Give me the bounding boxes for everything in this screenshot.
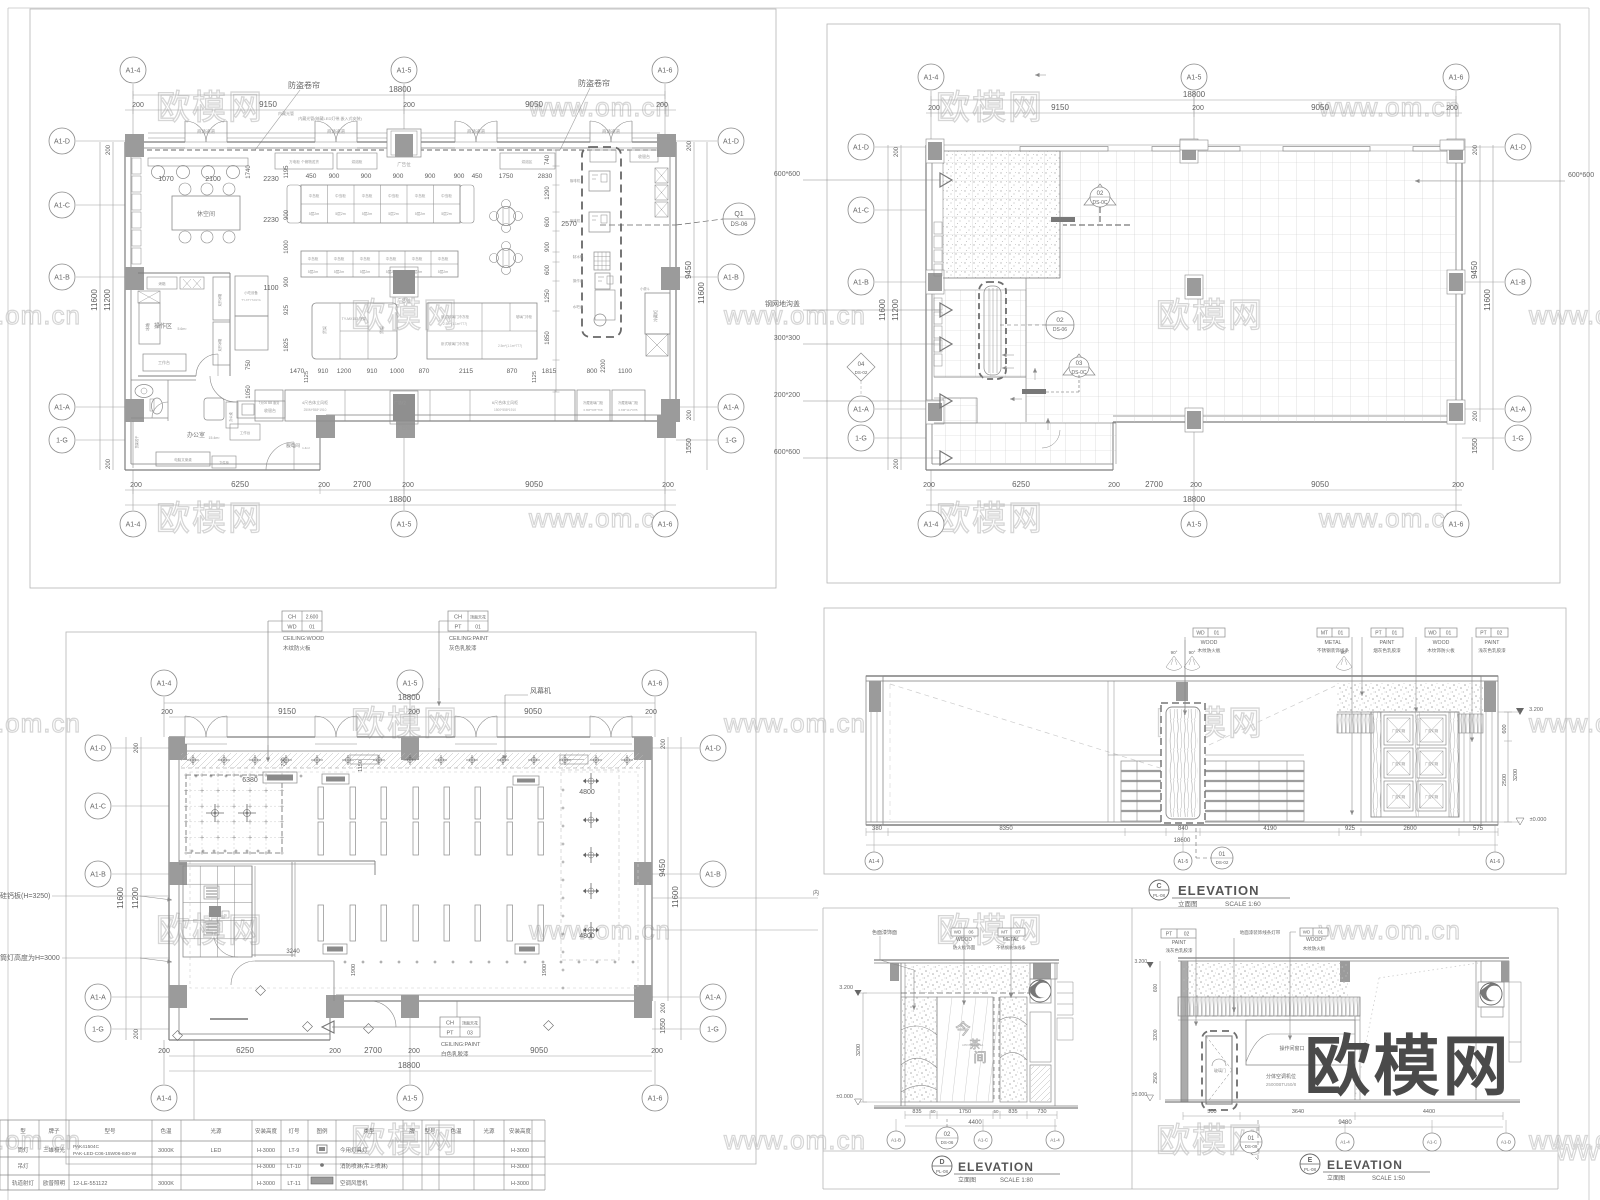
svg-text:6250: 6250 [236,1046,254,1055]
svg-text:200: 200 [106,458,112,469]
svg-text:A1-4: A1-4 [924,521,939,528]
svg-text:浅灰色乳胶漆: 浅灰色乳胶漆 [1166,947,1193,954]
svg-text:欧模网: 欧模网 [156,500,264,538]
svg-text:200: 200 [161,709,173,716]
svg-text:H-3000: H-3000 [511,1164,529,1170]
svg-text:1900: 1900 [542,964,548,976]
svg-text:中岛柜: 中岛柜 [441,193,452,198]
svg-text:A1-D: A1-D [1510,144,1526,151]
svg-text:200: 200 [329,1048,341,1055]
svg-text:3200: 3200 [1513,769,1519,781]
svg-text:A1-D: A1-D [90,745,106,752]
svg-text:4800: 4800 [579,789,595,796]
svg-text:A1-A: A1-A [1510,406,1526,413]
svg-text:木纹防火板: 木纹防火板 [1198,647,1221,654]
svg-text:1-G: 1-G [707,1026,719,1033]
svg-text:A1-C: A1-C [853,207,869,214]
svg-text:PT: PT [454,625,462,631]
svg-text:900: 900 [361,173,372,180]
svg-text:03: 03 [1076,361,1083,367]
svg-text:TY-XTY7A9YA: TY-XTY7A9YA [241,298,261,302]
svg-text:900: 900 [545,241,551,252]
svg-text:835: 835 [912,1109,921,1115]
svg-text:ELEVATION: ELEVATION [958,1160,1034,1174]
svg-text:04: 04 [858,362,865,368]
svg-text:18800: 18800 [398,1061,421,1070]
svg-text:A1-D: A1-D [1501,1140,1512,1145]
svg-text:A1-D: A1-D [705,745,721,752]
svg-text:玻璃门: 玻璃门 [1214,1067,1226,1073]
svg-text:200: 200 [1473,410,1479,421]
svg-text:A1-5: A1-5 [1187,521,1202,528]
svg-text:1750: 1750 [959,1109,971,1115]
svg-text:操作间窗口: 操作间窗口 [1279,1045,1304,1052]
svg-text:870: 870 [507,368,518,375]
svg-text:CEILING:PAINT: CEILING:PAINT [441,1042,481,1048]
svg-text:A1-6: A1-6 [658,521,673,528]
svg-text:广告灯箱: 广告灯箱 [1392,761,1406,766]
svg-text:1825: 1825 [284,338,290,352]
svg-text:02: 02 [1184,932,1190,938]
svg-text:筒灯高度为H=3000: 筒灯高度为H=3000 [0,953,60,962]
svg-text:1815: 1815 [542,368,557,375]
svg-text:S: S [224,913,227,918]
svg-text:2.5m*(1.1m*777): 2.5m*(1.1m*777) [443,322,467,326]
svg-text:LT-11: LT-11 [287,1181,300,1187]
svg-text:01: 01 [1219,852,1226,858]
svg-text:www.om.cn: www.om.cn [1318,92,1461,122]
svg-text:9050: 9050 [530,1046,548,1055]
svg-text:1-G: 1-G [725,437,737,444]
svg-text:925: 925 [284,304,290,315]
svg-text:2100: 2100 [205,176,221,183]
svg-text:广告灯箱: 广告灯箱 [1425,794,1439,799]
svg-text:安装高度: 安装高度 [255,1127,278,1135]
svg-text:5层2m: 5层2m [308,269,319,274]
svg-text:APROMISED TEA: APROMISED TEA [962,1043,984,1047]
svg-text:LT-9: LT-9 [289,1148,300,1154]
svg-text:METAL: METAL [1325,640,1342,646]
svg-text:9050: 9050 [1311,480,1329,489]
svg-text:3000K: 3000K [158,1181,174,1187]
svg-text:900: 900 [425,173,436,180]
svg-text:2700: 2700 [353,480,371,489]
svg-text:广告灯箱: 广告灯箱 [1425,761,1439,766]
svg-text:H-3000: H-3000 [257,1164,275,1170]
svg-text:光源: 光源 [210,1127,222,1135]
svg-text:2.5m*(1.1m*777): 2.5m*(1.1m*777) [498,344,522,348]
svg-text:www.om.cn: www.om.cn [528,503,671,533]
svg-text:WOOD: WOOD [1306,937,1322,943]
svg-text:ELEVATION: ELEVATION [1327,1158,1403,1172]
svg-text:木纹饰防火板: 木纹饰防火板 [1427,647,1455,654]
svg-text:www.om.cn: www.om.cn [528,92,671,122]
svg-text:3.200: 3.200 [1134,959,1147,965]
svg-text:SCALE 1:60: SCALE 1:60 [1225,901,1261,908]
svg-text:200: 200 [403,102,415,109]
svg-text:5层2m: 5层2m [334,269,345,274]
svg-text:中岛柜: 中岛柜 [438,256,449,261]
svg-text:WD: WD [1303,930,1311,935]
svg-text:1-G: 1-G [855,435,867,442]
svg-text:18800: 18800 [1183,90,1206,99]
svg-text:1500*558*1910: 1500*558*1910 [494,408,516,412]
svg-text:6250: 6250 [231,480,249,489]
svg-text:立面图: 立面图 [1178,899,1198,908]
svg-text:LED: LED [211,1148,222,1154]
svg-text:1850: 1850 [545,331,551,345]
svg-text:1900: 1900 [351,964,357,976]
svg-text:DS-02: DS-02 [855,370,868,375]
svg-text:06: 06 [968,930,974,935]
svg-text:E: E [1308,1157,1313,1164]
svg-text:9150: 9150 [259,100,277,109]
svg-text:3000K: 3000K [158,1148,174,1154]
svg-text:50: 50 [930,1109,936,1114]
svg-text:200: 200 [661,738,667,749]
svg-text:200: 200 [134,1028,140,1039]
svg-text:A1-A: A1-A [723,404,739,411]
svg-text:02: 02 [1056,317,1064,324]
svg-text:2700: 2700 [364,1046,382,1055]
svg-text:200: 200 [1452,482,1464,489]
svg-text:02: 02 [1097,191,1104,197]
svg-text:01: 01 [1338,631,1344,637]
svg-text:浅灰色乳胶漆: 浅灰色乳胶漆 [1478,647,1506,654]
svg-text:牌: 牌 [409,1127,415,1135]
svg-text:LT-10: LT-10 [287,1164,301,1170]
svg-text:双开冰箱: 双开冰箱 [217,293,222,307]
svg-text:CH: CH [446,1021,454,1027]
svg-text:烤箱: 烤箱 [159,281,166,286]
svg-text:1050: 1050 [246,385,252,399]
svg-text:消防喷淋(吊上喷淋): 消防喷淋(吊上喷淋) [340,1162,388,1170]
svg-text:3640: 3640 [1292,1109,1304,1115]
svg-text:工作台: 工作台 [158,359,170,365]
svg-text:4400: 4400 [968,1120,982,1126]
svg-text:1550: 1550 [1472,438,1479,454]
svg-text:A1-6: A1-6 [648,1095,663,1102]
svg-text:灯号: 灯号 [288,1127,300,1135]
svg-text:www.om.cn: www.om.cn [1318,503,1461,533]
svg-text:±0.000: ±0.000 [1132,1092,1147,1098]
svg-text:9450: 9450 [684,261,693,279]
svg-text:01: 01 [1446,631,1452,637]
svg-text:CH: CH [454,615,462,621]
svg-text:1000: 1000 [284,240,290,254]
svg-text:200: 200 [651,1048,663,1055]
svg-text:50: 50 [993,1109,999,1114]
svg-text:600: 600 [545,264,551,275]
svg-text:WD: WD [1428,631,1437,637]
svg-text:万电柜 个储物送货: 万电柜 个储物送货 [289,159,319,164]
svg-text:灰色乳胶漆: 灰色乳胶漆 [449,644,477,652]
svg-text:TY-MX153 货架: TY-MX153 货架 [342,316,367,321]
svg-text:PAINT: PAINT [1172,940,1186,946]
svg-text:1.4m²: 1.4m² [302,446,310,450]
svg-text:广告位: 广告位 [397,297,411,304]
svg-text:商场通道: 商场通道 [197,128,215,135]
svg-text:间: 间 [973,1050,986,1065]
svg-text:11600: 11600 [116,887,125,909]
svg-text:光源: 光源 [483,1127,495,1135]
svg-text:PL-08: PL-08 [936,1169,949,1174]
svg-text:商场通道: 商场通道 [467,128,485,135]
svg-text:02: 02 [1497,631,1503,637]
svg-text:防盗卷帘: 防盗卷帘 [578,78,610,88]
svg-text:安装高度: 安装高度 [509,1127,532,1135]
svg-text:4190: 4190 [1263,826,1277,832]
svg-text:1195: 1195 [284,165,290,179]
svg-text:A1-4: A1-4 [157,1095,172,1102]
svg-text:PL-08: PL-08 [1304,1167,1317,1172]
svg-text:200: 200 [894,458,900,469]
svg-text:250M*558*1910: 250M*558*1910 [304,408,327,412]
svg-text:工作台: 工作台 [240,430,251,435]
svg-text:11600: 11600 [697,282,706,304]
svg-text:www.om.cn: www.om.cn [723,1125,866,1155]
svg-text:中岛柜: 中岛柜 [362,193,373,198]
svg-text:型: 型 [20,1127,26,1135]
svg-text:A1-6: A1-6 [1490,859,1501,865]
svg-text:200: 200 [928,105,940,112]
svg-text:A1-C: A1-C [54,202,70,209]
svg-text:1-G: 1-G [56,437,68,444]
svg-text:www.om.cn: www.om.cn [723,708,866,738]
svg-text:SCALE 1:50: SCALE 1:50 [1372,1176,1406,1182]
svg-text:90°: 90° [1189,650,1196,655]
svg-text:DS-06: DS-06 [730,222,748,228]
svg-text:制冰机: 制冰机 [573,254,584,259]
svg-text:中岛柜: 中岛柜 [360,256,371,261]
svg-text:内: 内 [813,889,819,897]
svg-text:1125: 1125 [304,371,310,383]
svg-text:2500: 2500 [1502,774,1508,786]
svg-text:A1-B: A1-B [1510,279,1526,286]
svg-text:操作区: 操作区 [154,322,172,330]
svg-text:A1-D: A1-D [853,144,869,151]
svg-text:18600: 18600 [1174,838,1191,844]
svg-text:200: 200 [656,102,668,109]
svg-text:01: 01 [1318,930,1324,935]
svg-text:5层2m: 5层2m [309,211,320,216]
svg-text:DS-06: DS-06 [1053,327,1067,333]
svg-text:500: 500 [1207,1109,1216,1115]
svg-text:A1-C: A1-C [90,803,106,810]
svg-text:中岛柜: 中岛柜 [334,256,345,261]
svg-text:900: 900 [329,173,340,180]
svg-text:9450: 9450 [1470,261,1479,279]
svg-text:2115: 2115 [459,368,473,375]
svg-text:PAINT: PAINT [1380,640,1396,646]
svg-text:200: 200 [408,709,420,716]
svg-text:9050: 9050 [525,480,543,489]
svg-text:A1-6: A1-6 [648,680,663,687]
svg-text:835: 835 [1008,1109,1017,1115]
svg-text:11200: 11200 [103,289,112,311]
svg-text:4400: 4400 [1423,1109,1435,1115]
svg-text:A1-B: A1-B [90,871,106,878]
svg-text:1000: 1000 [390,368,405,375]
svg-text:A1-A: A1-A [705,994,721,1001]
svg-text:0.8M*111*07B: 0.8M*111*07B [619,408,638,412]
svg-text:广告灯箱: 广告灯箱 [1392,728,1406,733]
svg-text:广告位: 广告位 [397,424,411,431]
svg-text:A1-B: A1-B [891,1138,901,1143]
svg-text:1750: 1750 [499,173,514,180]
svg-text:740: 740 [545,154,551,165]
svg-text:www.om.cn: www.om.cn [1318,915,1461,945]
svg-text:600*600: 600*600 [1568,172,1594,179]
svg-text:1550: 1550 [660,1018,667,1034]
svg-text:钢网地沟盖: 钢网地沟盖 [765,299,800,308]
svg-text:白色乳胶漆: 白色乳胶漆 [441,1050,469,1058]
svg-text:2570: 2570 [561,221,577,228]
svg-text:DS-0C: DS-0C [1092,200,1107,206]
svg-text:WOOD: WOOD [1433,640,1450,646]
svg-text:卧式玻璃门冷冻柜: 卧式玻璃门冷冻柜 [441,314,469,319]
svg-text:8350: 8350 [999,826,1013,832]
svg-text:200: 200 [134,742,140,753]
svg-text:欧普照明: 欧普照明 [43,1179,66,1187]
svg-text:450: 450 [306,173,317,180]
svg-text:±0.000: ±0.000 [836,1094,853,1100]
svg-text:200: 200 [132,102,144,109]
svg-text:700: 700 [281,757,287,766]
svg-text:2.600: 2.600 [306,615,319,621]
svg-text:A1-6: A1-6 [658,67,673,74]
svg-text:A1-D: A1-D [723,138,739,145]
svg-text:色面漆饰面: 色面漆饰面 [872,929,897,936]
svg-text:卧式玻璃门冷冻柜: 卧式玻璃门冷冻柜 [441,341,469,346]
svg-text:PT: PT [1166,932,1172,938]
svg-text:900: 900 [284,209,290,220]
svg-text:WD: WD [287,625,296,631]
svg-text:380: 380 [872,826,883,832]
svg-text:CEILING:PAINT: CEILING:PAINT [449,636,489,642]
svg-text:A1-6: A1-6 [1449,521,1464,528]
svg-text:DS-06: DS-06 [941,1140,954,1145]
svg-text:11600: 11600 [1483,289,1492,311]
svg-text:今用灯具灯: 今用灯具灯 [340,1146,368,1154]
svg-text:01: 01 [1392,631,1398,637]
svg-text:9050: 9050 [525,100,543,109]
svg-text:A1-4: A1-4 [1340,1140,1350,1145]
svg-text:750: 750 [246,359,252,370]
svg-text:A1-4: A1-4 [869,859,880,865]
svg-text:Q1: Q1 [734,211,743,218]
svg-text:MT: MT [1321,631,1328,637]
svg-text:0.8M*505*768: 0.8M*505*768 [583,408,602,412]
svg-text:02: 02 [944,1132,951,1138]
svg-text:操作台: 操作台 [573,278,584,283]
svg-text:木纹防火板: 木纹防火板 [1303,945,1326,952]
svg-text:硅钙板(H=3250): 硅钙板(H=3250) [0,891,50,900]
svg-text:WD: WD [954,930,962,935]
svg-text:A1-A: A1-A [853,406,869,413]
svg-text:DS-02: DS-02 [1216,860,1229,865]
svg-text:类型: 类型 [363,1127,375,1135]
svg-text:2500: 2500 [1153,1072,1159,1083]
svg-text:1740: 1740 [246,165,252,179]
svg-text:900: 900 [284,276,290,287]
svg-text:9480: 9480 [1338,1120,1352,1126]
svg-text:840: 840 [1178,826,1189,832]
svg-text:中岛柜: 中岛柜 [386,256,397,261]
svg-text:±0.000: ±0.000 [1530,817,1547,823]
svg-text:MT: MT [1001,930,1008,935]
svg-text:9150: 9150 [1051,103,1069,112]
svg-text:PAK41504C: PAK41504C [73,1144,100,1150]
svg-text:900: 900 [393,173,404,180]
svg-text:顶面天花: 顶面天花 [462,1020,478,1026]
svg-text:冷藏玻璃门柜: 冷藏玻璃门柜 [583,400,604,405]
svg-text:欧模网: 欧模网 [156,912,264,950]
svg-text:200: 200 [687,409,693,420]
svg-text:PT: PT [446,1031,454,1037]
svg-text:中岛柜: 中岛柜 [335,193,346,198]
svg-text:欧模网: 欧模网 [936,89,1044,127]
svg-text:910: 910 [367,368,378,375]
svg-text:冰箱: 冰箱 [144,323,150,331]
svg-text:咖啡机: 咖啡机 [570,178,581,183]
svg-text:C: C [1156,883,1161,890]
svg-text:WD: WD [1196,631,1205,637]
svg-text:ELEVATION: ELEVATION [1178,883,1259,898]
svg-text:25000BTU50/8: 25000BTU50/8 [1266,1082,1297,1087]
svg-text:12-LE-551122: 12-LE-551122 [73,1181,107,1187]
svg-text:欧模网: 欧模网 [936,500,1044,538]
svg-text:筒灯: 筒灯 [17,1146,29,1154]
svg-text:冷藏玻璃门柜: 冷藏玻璃门柜 [618,400,639,405]
svg-text:电脑文案桌: 电脑文案桌 [174,457,192,462]
svg-text:防盗卷帘: 防盗卷帘 [288,80,320,90]
svg-text:办公桌: 办公桌 [228,411,233,421]
svg-text:3200: 3200 [1153,1029,1159,1040]
svg-text:www.om.cn: www.om.cn [0,708,81,738]
svg-text:2230: 2230 [263,176,279,183]
svg-text:11600: 11600 [671,886,680,908]
svg-text:5层2m: 5层2m [415,211,426,216]
svg-text:H-3000: H-3000 [257,1181,275,1187]
svg-text:200: 200 [645,709,657,716]
svg-text:www.om.cn: www.om.cn [528,915,671,945]
svg-text:200: 200 [1192,105,1204,112]
svg-text:01: 01 [1214,631,1220,637]
svg-text:顶面天花: 顶面天花 [470,614,486,620]
svg-text:5层2m: 5层2m [362,211,373,216]
svg-text:910: 910 [318,368,329,375]
svg-text:欧模网: 欧模网 [1305,1029,1512,1103]
svg-text:A1-A: A1-A [90,994,106,1001]
svg-text:吊灯: 吊灯 [17,1162,29,1170]
svg-text:18800: 18800 [389,85,412,94]
svg-text:分体空调机位: 分体空调机位 [1266,1073,1296,1080]
svg-text:牌子: 牌子 [48,1127,60,1135]
svg-text:立面图: 立面图 [958,1176,976,1184]
svg-text:PL-08: PL-08 [1153,893,1166,898]
svg-text:商场通道: 商场通道 [327,128,345,135]
svg-text:3200: 3200 [856,1044,862,1056]
svg-text:200*200: 200*200 [774,392,800,399]
svg-text:内藏光管: 内藏光管 [278,110,294,116]
svg-text:PAK-LED-C06-15W06-840-W: PAK-LED-C06-15W06-840-W [73,1151,137,1157]
svg-text:11600: 11600 [90,289,99,311]
svg-text:2230: 2230 [263,217,279,224]
svg-text:中岛柜: 中岛柜 [415,193,426,198]
svg-text:11200: 11200 [131,887,140,909]
svg-text:A1-B: A1-B [705,871,721,878]
